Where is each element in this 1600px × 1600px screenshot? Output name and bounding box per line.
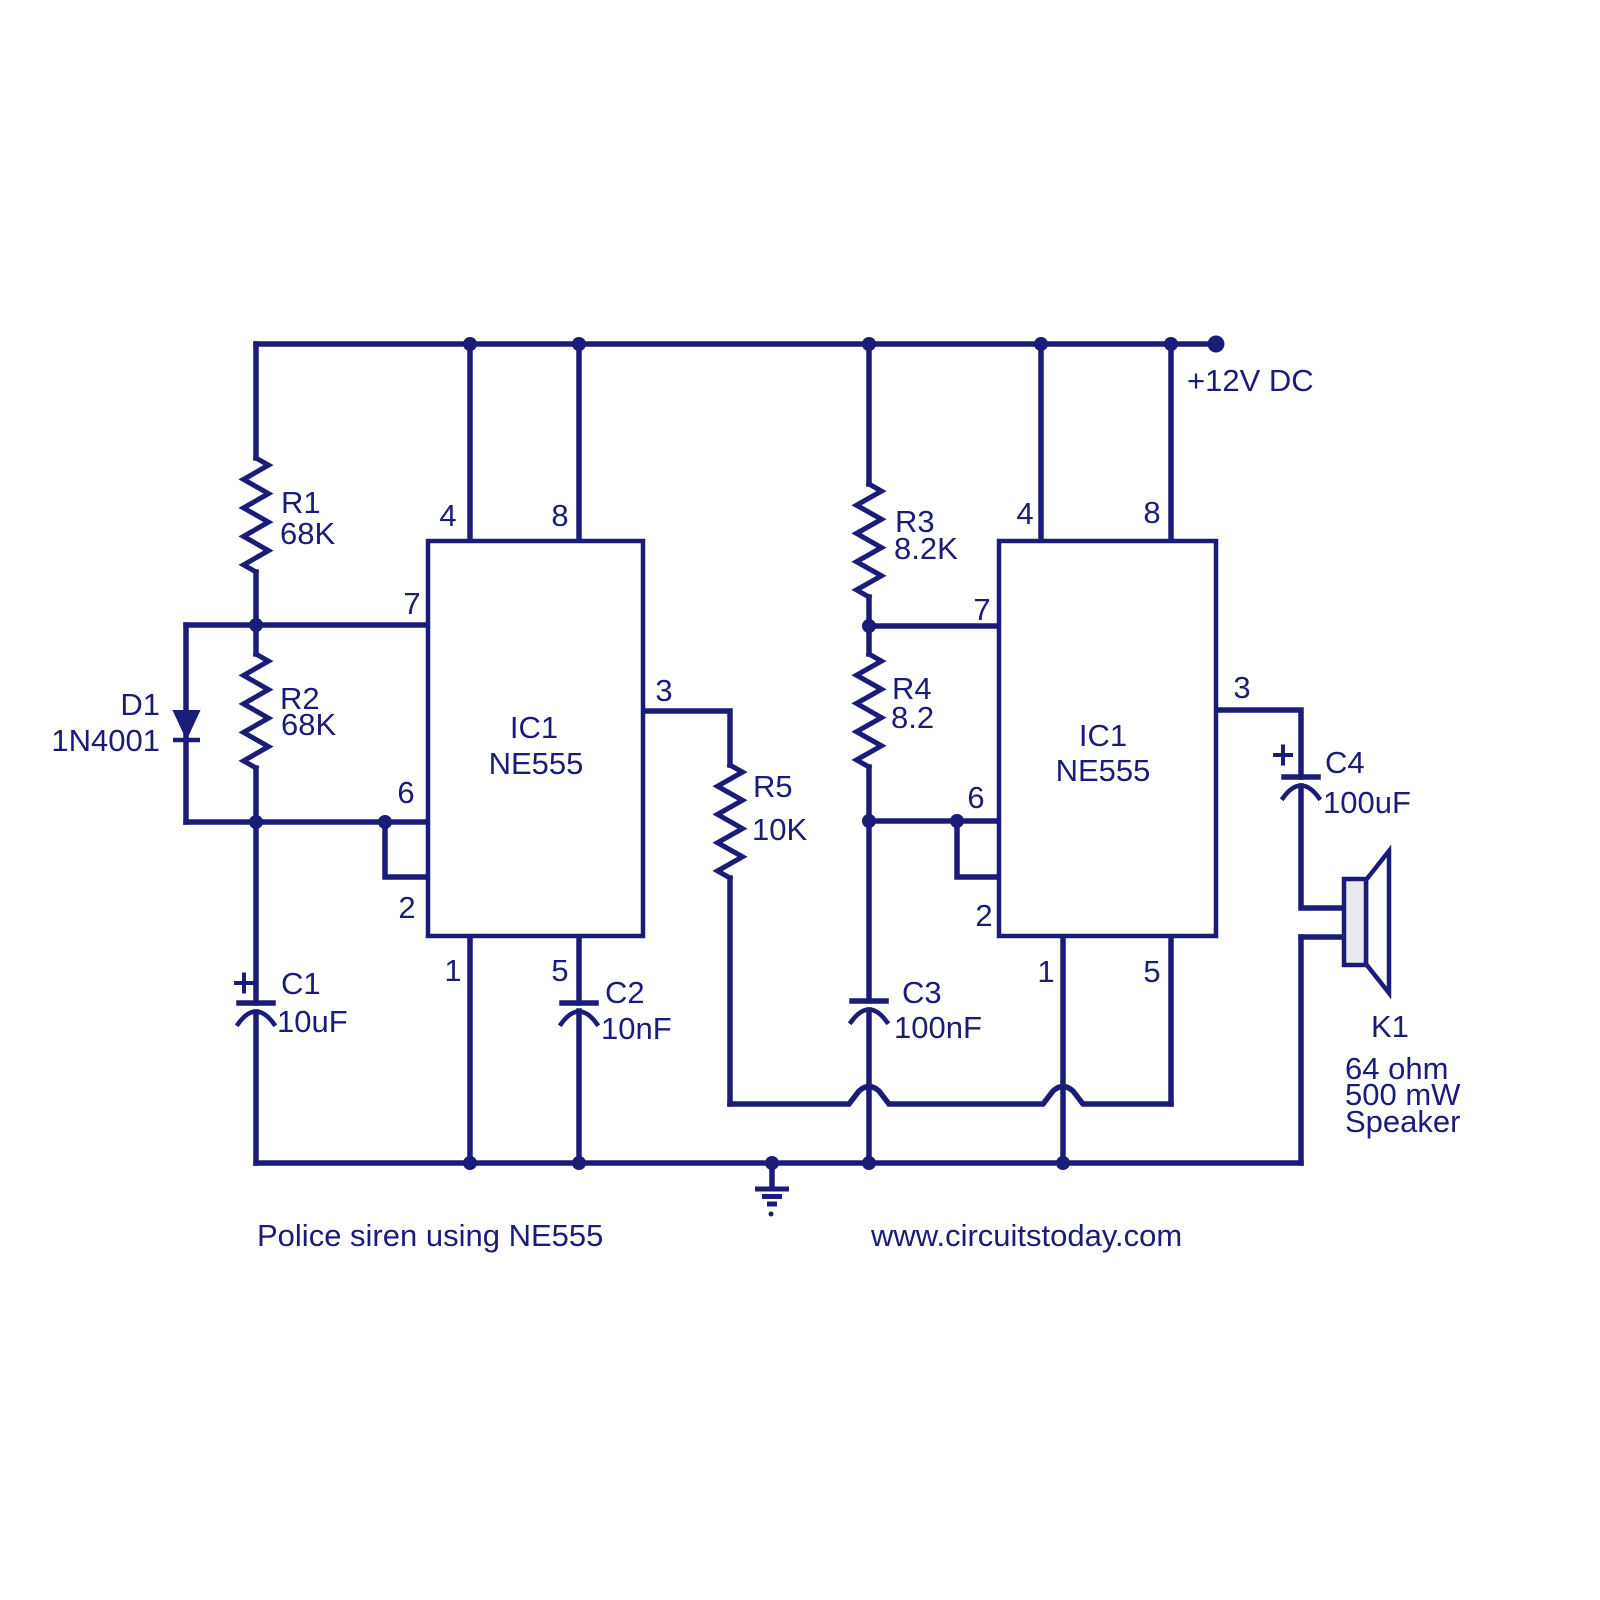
svg-text:10uF: 10uF [277,1004,348,1039]
svg-text:10K: 10K [752,812,807,847]
svg-text:C2: C2 [605,975,645,1010]
svg-text:K1: K1 [1371,1009,1409,1044]
svg-text:7: 7 [973,592,990,627]
svg-text:8.2K: 8.2K [894,531,958,566]
svg-text:1N4001: 1N4001 [51,723,160,758]
svg-text:NE555: NE555 [1056,753,1151,788]
svg-text:5: 5 [551,953,568,988]
svg-text:5: 5 [1143,954,1160,989]
svg-text:8: 8 [1143,495,1160,530]
svg-text:3: 3 [1233,670,1250,705]
svg-text:www.circuitstoday.com: www.circuitstoday.com [870,1218,1182,1253]
svg-text:7: 7 [403,586,420,621]
svg-text:8.2: 8.2 [891,700,934,735]
svg-text:NE555: NE555 [489,746,584,781]
svg-text:R1: R1 [281,485,321,520]
svg-text:+12V DC: +12V DC [1187,363,1314,398]
svg-text:4: 4 [1016,496,1033,531]
svg-text:Police siren using NE555: Police siren using NE555 [257,1218,603,1253]
svg-text:68K: 68K [281,707,336,742]
svg-text:10nF: 10nF [601,1011,672,1046]
svg-text:100uF: 100uF [1323,785,1411,820]
svg-text:4: 4 [439,498,456,533]
svg-text:D1: D1 [120,687,160,722]
svg-text:Speaker: Speaker [1345,1104,1460,1139]
svg-text:IC1: IC1 [1079,718,1127,753]
svg-text:C3: C3 [902,975,942,1010]
svg-text:C1: C1 [281,966,321,1001]
svg-text:8: 8 [551,498,568,533]
svg-text:100nF: 100nF [894,1010,982,1045]
svg-text:C4: C4 [1325,745,1365,780]
svg-text:6: 6 [397,775,414,810]
svg-text:68K: 68K [280,516,335,551]
svg-text:1: 1 [1037,954,1054,989]
svg-text:3: 3 [655,673,672,708]
svg-text:1: 1 [444,953,461,988]
svg-text:IC1: IC1 [510,710,558,745]
svg-text:6: 6 [967,780,984,815]
svg-text:2: 2 [398,890,415,925]
svg-text:2: 2 [975,898,992,933]
svg-text:R5: R5 [753,769,793,804]
